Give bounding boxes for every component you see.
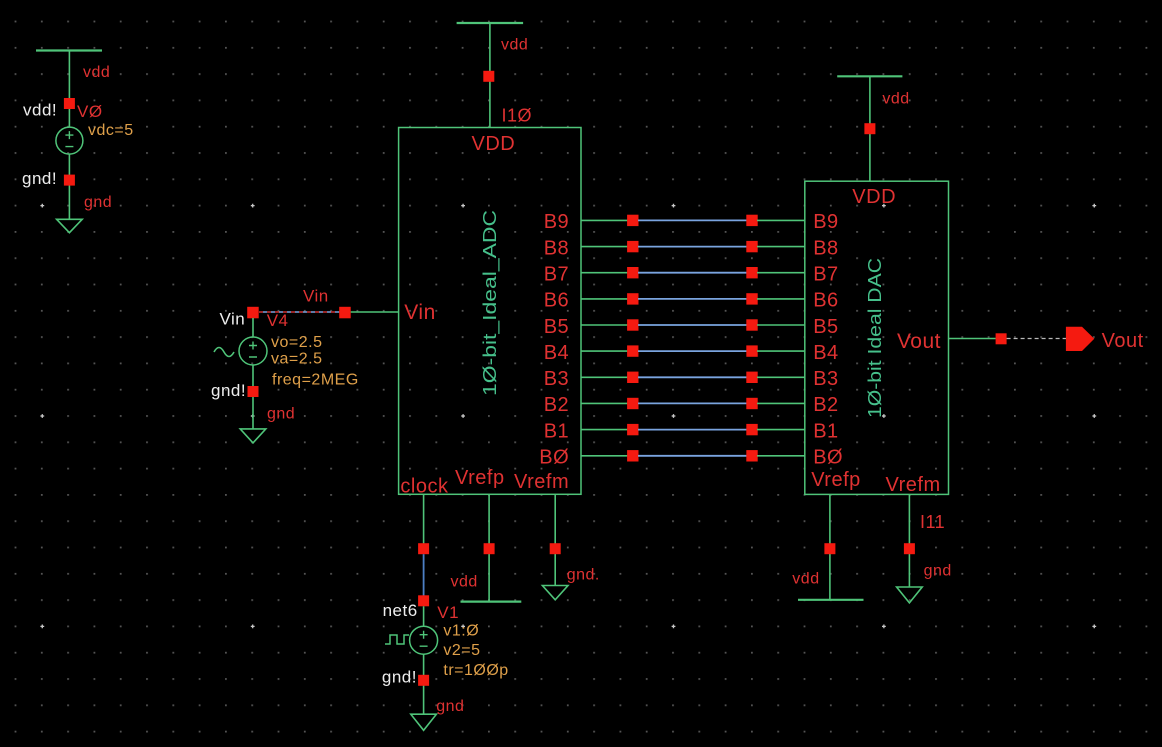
pin square B2 right: [746, 398, 757, 409]
svg-text:v2=5: v2=5: [443, 642, 480, 659]
pin square B5 left: [627, 319, 638, 330]
power symbol vdd (V0 rail): [36, 49, 102, 51]
DAC block I11 outline: [805, 181, 949, 494]
svg-text:vdd: vdd: [501, 37, 528, 54]
pin square V1 minus (gnd!): [418, 675, 429, 686]
wire vdd bar to V0 plus: [68, 51, 70, 128]
pin square B6 left: [627, 293, 638, 304]
wire B8 DAC stub: [757, 246, 805, 248]
ground symbol (ADC Vrefm): [542, 586, 568, 600]
wire B3 bus (blue): [638, 376, 747, 378]
pin square B3 right: [746, 372, 757, 383]
wire B6 ADC stub: [581, 298, 628, 300]
wire B7 ADC stub: [581, 272, 628, 274]
wire B4 ADC stub: [581, 350, 628, 352]
svg-text:clock: clock: [400, 476, 449, 498]
wire vdd to DAC VDD pin: [869, 76, 871, 181]
ground symbol (V4): [240, 429, 266, 443]
power symbol vdd (I10): [457, 22, 523, 24]
wire B4 bus (blue): [638, 350, 747, 352]
wire B5 DAC stub: [757, 324, 805, 326]
wire B9 ADC stub: [581, 219, 628, 221]
svg-text:gnd!: gnd!: [22, 169, 57, 188]
wire ADC Vrefp down: [488, 494, 490, 601]
pin square DAC VDD: [864, 123, 875, 134]
svg-text:Vout: Vout: [1102, 330, 1144, 352]
pin square B9 right: [746, 215, 757, 226]
pin square B7 left: [627, 267, 638, 278]
svg-text:vdd: vdd: [451, 574, 478, 591]
pin square ADC VDD: [483, 71, 494, 82]
pin square B4 left: [627, 345, 638, 356]
wire B9 bus (blue): [638, 219, 747, 221]
svg-text:Vout: Vout: [897, 330, 941, 353]
svg-text:Vin: Vin: [220, 310, 246, 329]
svg-text:B8: B8: [813, 237, 838, 259]
svg-text:B2: B2: [544, 394, 569, 416]
svg-text:VDD: VDD: [472, 133, 516, 155]
svg-text:Vrefm: Vrefm: [514, 471, 569, 493]
pulse symbol: [385, 635, 409, 644]
pin square B8 left: [627, 241, 638, 252]
svg-text:VØ: VØ: [77, 102, 103, 121]
svg-text:gnd!: gnd!: [382, 668, 417, 687]
svg-text:B6: B6: [813, 290, 838, 312]
svg-text:gnd: gnd: [267, 406, 295, 423]
svg-text:B1: B1: [544, 420, 569, 442]
pin square B7 right: [746, 267, 757, 278]
wire B1 ADC stub: [581, 429, 628, 431]
svg-text:vo=2.5: vo=2.5: [271, 334, 322, 351]
pin square net6 / V1 plus: [418, 595, 429, 606]
svg-text:Vrefp: Vrefp: [811, 469, 861, 491]
pin square DAC Vrefp: [824, 543, 835, 554]
wire B2 ADC stub: [581, 402, 628, 404]
svg-text:B7: B7: [544, 264, 569, 286]
wire ADC Vrefm down: [554, 494, 556, 585]
svg-text:Vrefm: Vrefm: [886, 474, 941, 496]
wire B5 bus (blue): [638, 324, 747, 326]
pin square B0 right: [746, 450, 757, 461]
svg-text:B9: B9: [544, 211, 569, 233]
power symbol vdd (I11): [837, 75, 902, 77]
svg-text:B4: B4: [813, 342, 838, 364]
wire V4 minus to gnd: [252, 365, 254, 429]
svg-text:vdd: vdd: [792, 571, 819, 588]
sine source V4: [239, 337, 267, 365]
wire V0 minus to gnd: [68, 154, 70, 219]
svg-text:B4: B4: [544, 342, 569, 364]
svg-text:B6: B6: [544, 290, 569, 312]
svg-text:1Ø-bit_Ideal_ADC: 1Ø-bit_Ideal_ADC: [480, 210, 501, 396]
svg-text:gnd!: gnd!: [211, 381, 246, 400]
pin square V4 plus: [247, 307, 259, 319]
svg-text:B5: B5: [813, 316, 838, 338]
pin square B3 left: [627, 372, 638, 383]
svg-text:gnd.: gnd.: [567, 567, 600, 584]
pin square Vout node: [996, 333, 1007, 344]
wire Vin flight line (dashed): [259, 311, 340, 313]
dc source V0: [56, 127, 83, 154]
pin square DAC Vrefm: [904, 543, 915, 554]
wire B0 DAC stub: [757, 455, 805, 457]
pin square B2 left: [627, 398, 638, 409]
svg-text:B5: B5: [544, 316, 569, 338]
ground symbol (V0): [57, 219, 83, 232]
svg-text:BØ: BØ: [539, 447, 569, 469]
svg-text:1Ø-bit Ideal DAC: 1Ø-bit Ideal DAC: [865, 258, 885, 418]
wire Vout flight line (dashed): [1007, 338, 1066, 340]
pin square V4 minus (gnd!): [248, 386, 259, 397]
pin square clock: [418, 543, 429, 554]
wire DAC Vrefp down: [829, 494, 831, 599]
wire B1 bus (blue): [638, 429, 747, 431]
svg-text:VDD: VDD: [852, 186, 896, 208]
wire B3 ADC stub: [581, 376, 628, 378]
wire B8 bus (blue): [638, 246, 747, 248]
wire B6 DAC stub: [757, 298, 805, 300]
wire V4 plus to source: [252, 318, 254, 337]
output pin symbol Vout: [1066, 327, 1094, 351]
svg-text:gnd: gnd: [84, 194, 112, 211]
svg-text:vdd!: vdd!: [23, 101, 57, 120]
pin square B9 left: [627, 215, 638, 226]
svg-text:vdd: vdd: [882, 91, 909, 108]
svg-text:B2: B2: [813, 394, 838, 416]
svg-text:gnd: gnd: [924, 563, 952, 580]
pin square B0 left: [627, 450, 638, 461]
wire V1 top: [423, 606, 425, 626]
wire net6 (blue): [423, 554, 425, 595]
wire B7 bus (blue): [638, 272, 747, 274]
wire B0 ADC stub: [581, 455, 628, 457]
svg-text:I11: I11: [920, 512, 945, 532]
wire V1 minus to gnd: [423, 654, 425, 714]
svg-text:net6: net6: [383, 601, 418, 620]
ground symbol (V1): [411, 714, 437, 730]
svg-text:B3: B3: [813, 368, 838, 390]
wire B2 bus (blue): [638, 402, 747, 404]
wire B5 ADC stub: [581, 324, 628, 326]
svg-text:freq=2MEG: freq=2MEG: [272, 372, 359, 389]
svg-text:BØ: BØ: [813, 447, 843, 469]
pin square B5 right: [746, 319, 757, 330]
pin square V0 plus (vdd!): [64, 98, 75, 109]
pin square B1 left: [627, 424, 638, 435]
wire DAC Vrefm down: [908, 494, 910, 587]
svg-text:vdd: vdd: [83, 64, 110, 81]
svg-text:Vrefp: Vrefp: [455, 467, 505, 489]
sine symbol: [214, 348, 234, 357]
pin square V0 minus (gnd!): [64, 175, 75, 186]
svg-text:v1:Ø: v1:Ø: [443, 623, 479, 640]
svg-text:B7: B7: [813, 264, 838, 286]
wire B2 DAC stub: [757, 402, 805, 404]
wire B7 DAC stub: [757, 272, 805, 274]
svg-text:I1Ø: I1Ø: [502, 106, 533, 126]
svg-text:vdc=5: vdc=5: [88, 122, 134, 139]
svg-text:V1: V1: [437, 603, 459, 622]
wire Vout from DAC: [949, 338, 996, 340]
svg-text:B3: B3: [544, 368, 569, 390]
wire B8 ADC stub: [581, 246, 628, 248]
wire B4 DAC stub: [757, 350, 805, 352]
svg-text:va=2.5: va=2.5: [271, 351, 322, 368]
svg-text:B1: B1: [813, 420, 838, 442]
pulse source V1: [410, 626, 438, 654]
wire clock from ADC: [423, 494, 425, 543]
wire B0 bus (blue): [638, 455, 747, 457]
pin square B6 right: [746, 293, 757, 304]
power symbol vdd (DAC Vrefp): [798, 599, 864, 601]
svg-text:gnd: gnd: [436, 698, 464, 715]
wire vdd to ADC VDD pin: [489, 23, 491, 128]
power symbol vdd (ADC Vrefp): [461, 600, 522, 602]
pin square B8 right: [746, 241, 757, 252]
wire Vin to ADC: [351, 311, 399, 313]
svg-text:Vin: Vin: [404, 301, 435, 324]
svg-text:tr=1ØØp: tr=1ØØp: [443, 662, 508, 679]
pin square ADC Vrefm: [550, 543, 561, 554]
wire B9 DAC stub: [757, 219, 805, 221]
wire B1 DAC stub: [757, 429, 805, 431]
pin square ADC Vrefp: [484, 543, 495, 554]
svg-text:V4: V4: [267, 311, 289, 330]
wire B3 DAC stub: [757, 376, 805, 378]
pin square Vin node: [339, 307, 351, 319]
ground symbol (DAC Vrefm): [897, 587, 923, 603]
svg-text:B9: B9: [813, 211, 838, 233]
svg-text:Vin: Vin: [303, 287, 329, 306]
wire B6 bus (blue): [638, 298, 747, 300]
pin square B4 right: [746, 345, 757, 356]
ADC block I10 outline: [399, 128, 581, 495]
svg-text:B8: B8: [544, 237, 569, 259]
pin square B1 right: [746, 424, 757, 435]
